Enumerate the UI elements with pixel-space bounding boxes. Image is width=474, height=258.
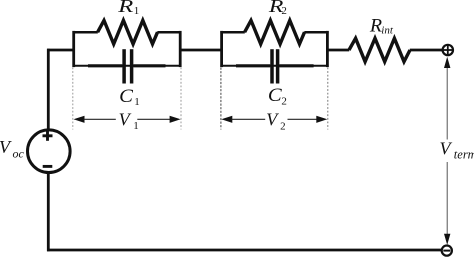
wire left vertical lower [47,173,50,252]
label Voc [0,137,25,161]
wire between box1 and box2 [179,49,223,52]
wire box2 to Rint [326,49,349,52]
V2 arrow left head [221,116,232,123]
capacitor C1 plates [124,49,132,83]
plus terminal circle [443,45,453,55]
Vterm arrowhead up [444,57,450,68]
V1 arrow left head [74,116,85,123]
label R1 [117,0,139,17]
svg-text:R: R [117,0,133,16]
label R2 [268,0,287,17]
RC box 1 bottom edge [73,65,182,67]
svg-text:int: int [381,25,394,37]
Vterm arrow upper line [446,67,448,140]
voltage source Voc circle [28,130,71,173]
svg-text:C: C [268,85,282,106]
svg-text:2: 2 [280,121,286,133]
Vterm arrowhead down [444,234,450,245]
RC box 2 left edge [220,31,223,67]
RC box 2 right edge [326,31,329,67]
label V2 [266,109,285,132]
capacitor C2 thick leads [236,64,314,67]
minus terminal circle [442,246,452,256]
RC box 2 top lead right [304,31,328,34]
wire bottom horizontal [47,249,442,252]
capacitor C1 thick leads [88,64,166,67]
svg-text:2: 2 [281,96,287,108]
resistor R1 zigzag [98,20,158,44]
dashed line box1 left [72,68,74,130]
label Rint [369,15,394,36]
label C2 [268,85,287,107]
dashed line box2 right [327,68,329,130]
V1 arrow left line [84,118,116,120]
V2 arrow left line [231,118,265,120]
resistor R2 zigzag [245,20,305,44]
svg-text:1: 1 [134,5,140,17]
V2 arrow right line [288,118,318,120]
RC box 2 bottom edge [220,65,328,67]
wire top-left horizontal [47,49,75,52]
svg-text:1: 1 [133,120,139,132]
Voc minus sign [43,165,53,168]
V2 arrow right head [316,116,327,123]
dashed line box1 right [180,68,182,130]
minus terminal bar [443,250,450,252]
resistor Rint zigzag [349,38,410,61]
V1 arrow right head [170,116,181,123]
svg-text:oc: oc [13,147,25,161]
capacitor C2 plates [272,49,278,83]
RC box 1 right edge [179,31,182,67]
svg-text:C: C [119,86,133,107]
label Vterm [440,138,474,161]
label C1 [119,86,140,108]
svg-text:term: term [454,148,474,162]
svg-text:1: 1 [134,96,140,108]
dashed line box2 left [220,68,222,130]
svg-text:2: 2 [281,5,287,17]
RC box 1 top lead right [157,31,181,34]
label V1 [119,109,139,132]
RC box 1 left edge [72,31,75,67]
Voc plus sign [43,131,53,141]
V1 arrow right line [137,118,171,120]
wire Rint to plus terminal [410,49,443,52]
RC box 1 top lead left [73,31,98,34]
wire left vertical upper [47,49,50,131]
Vterm arrow lower line [446,162,448,235]
plus terminal cross [443,45,453,55]
RC box 2 top lead left [220,31,244,34]
